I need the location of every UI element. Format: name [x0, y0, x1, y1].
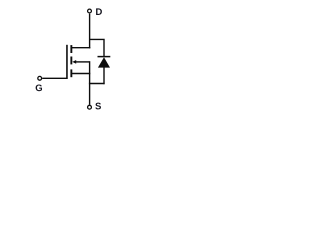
transistor Q1 channel segment middle [70, 57, 72, 65]
wire bottom rail [89, 83, 105, 85]
terminal D [88, 9, 92, 13]
wire diode anode [103, 67, 105, 84]
terminal G [38, 76, 42, 80]
wire body stub [76, 61, 90, 63]
transistor Q1 body arrow [72, 60, 76, 64]
wire source stub [72, 73, 90, 75]
label D [96, 8, 102, 15]
wire gate lead [42, 77, 67, 79]
label S [95, 103, 101, 110]
wire source to S [89, 84, 91, 105]
terminal S [88, 105, 92, 109]
wire drain vertical [89, 14, 91, 49]
transistor Q1 gate bar [66, 45, 68, 79]
wire top branch to diode [90, 39, 104, 56]
wire source vertical [89, 61, 91, 83]
transistor Q1 channel segment top [70, 45, 72, 53]
wire drain stub [72, 47, 90, 49]
diode body cathode bar [98, 56, 111, 58]
diode body triangle [98, 57, 110, 67]
label G [36, 84, 42, 91]
transistor Q1 channel segment bottom [70, 69, 72, 77]
